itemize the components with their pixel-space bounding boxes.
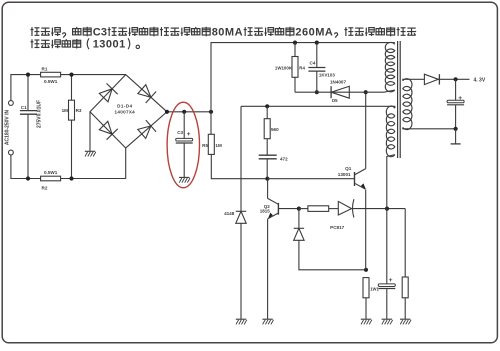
svg-text:D1-D4: D1-D4 [117,104,132,109]
svg-text:C3: C3 [177,130,183,135]
svg-text:AC180-250V IN: AC180-250V IN [5,109,11,145]
svg-text:14007X4: 14007X4 [115,110,136,115]
svg-text:4148: 4148 [224,211,235,216]
svg-text:1M: 1M [215,143,222,148]
svg-text:80MA: 80MA [212,27,243,39]
svg-text:+: + [458,95,462,102]
svg-text:1W100K: 1W100K [275,65,293,70]
svg-text:13001: 13001 [338,172,351,177]
svg-text:0.5W1: 0.5W1 [44,170,58,175]
svg-text:R5: R5 [202,143,208,148]
svg-text:C3: C3 [93,27,107,39]
svg-text:1KV103: 1KV103 [319,73,335,78]
svg-text:R3: R3 [76,108,82,113]
svg-text:13001: 13001 [93,39,126,51]
svg-text:D5: D5 [332,98,338,103]
svg-text:C1: C1 [21,105,27,110]
svg-text:260MA: 260MA [295,27,333,39]
svg-text:1W1: 1W1 [370,287,379,292]
svg-text:275V0.01UF: 275V0.01UF [37,100,43,128]
svg-text:Q1: Q1 [345,166,352,171]
svg-text:1815: 1815 [260,209,271,214]
svg-text:472: 472 [280,156,288,161]
svg-text:PC817: PC817 [330,225,344,230]
svg-text:+: + [187,131,191,138]
svg-text:+: + [389,277,393,284]
svg-text:R4: R4 [299,65,305,70]
svg-text:1N4007: 1N4007 [330,79,347,84]
svg-text:560: 560 [271,127,279,132]
svg-text:R1: R1 [42,67,48,72]
svg-text:1M: 1M [62,108,69,113]
svg-text:4. 3V: 4. 3V [474,77,486,83]
svg-text:R2: R2 [42,185,48,190]
svg-text:0.5W1: 0.5W1 [44,79,58,84]
svg-text:C4: C4 [310,60,316,65]
